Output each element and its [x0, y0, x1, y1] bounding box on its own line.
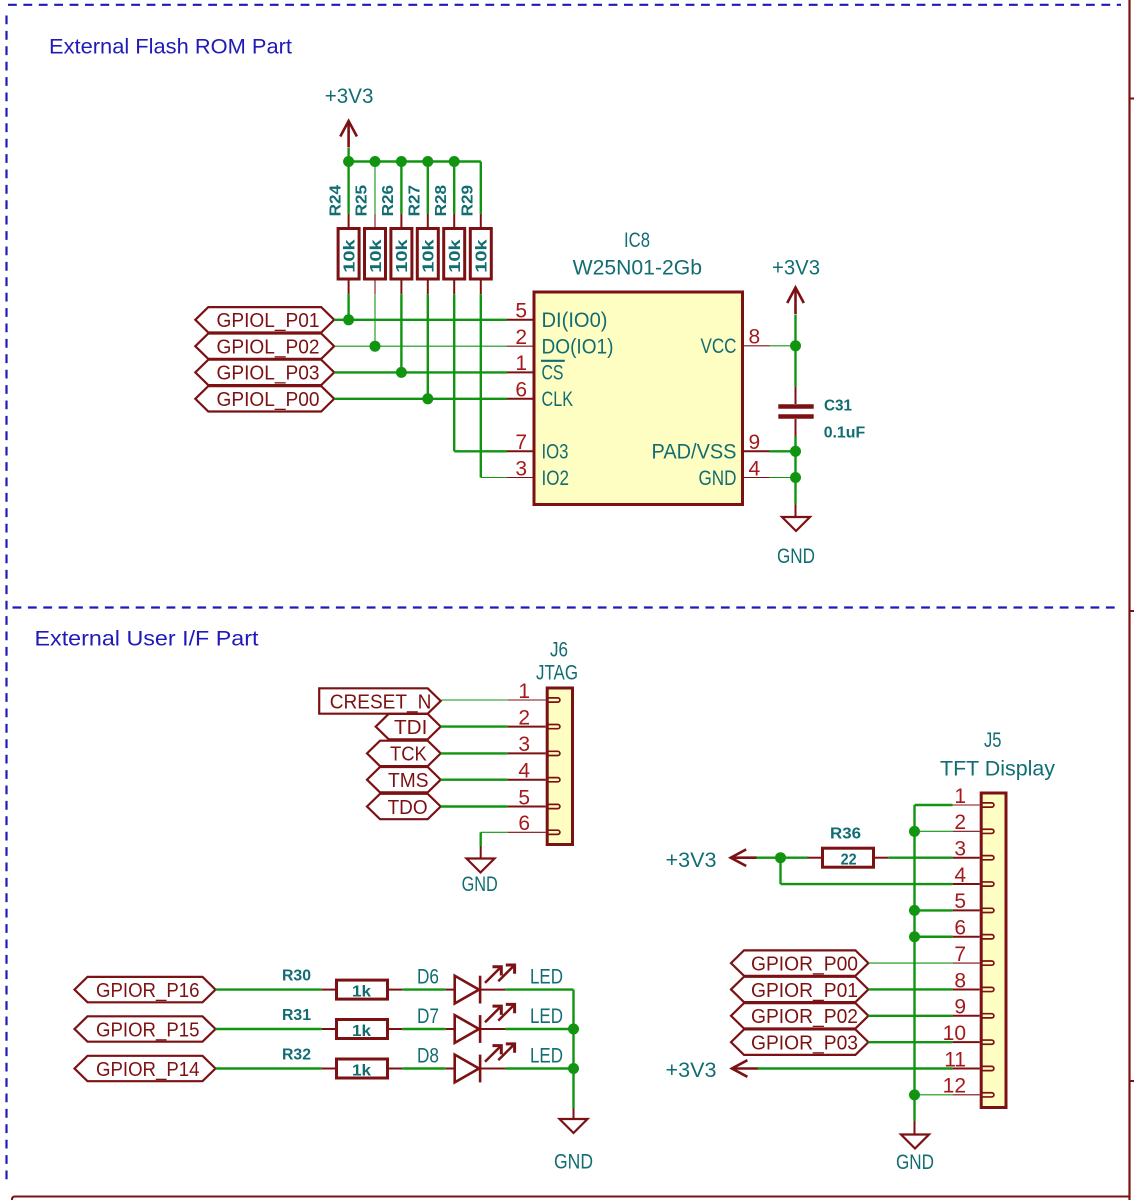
svg-text:5: 5	[518, 786, 530, 809]
wire TDO	[441, 805, 508, 807]
svg-text:GND: GND	[896, 1151, 934, 1174]
svg-text:1: 1	[515, 352, 527, 375]
wire GPIOR_P14 to R32	[216, 1067, 322, 1069]
hierarchical label GPIOR_P03	[731, 1029, 868, 1054]
J5 pin 2 stub	[953, 830, 980, 832]
svg-text:8: 8	[954, 969, 966, 992]
wire down to ground	[480, 832, 482, 846]
wire GPIOR_P01	[868, 988, 952, 990]
svg-text:10k: 10k	[368, 239, 385, 273]
wire +3V3 to J5 pin 11	[757, 1067, 952, 1069]
hierarchical label TDI	[376, 714, 441, 739]
ground stem	[795, 504, 797, 517]
+3V3 power	[732, 1060, 759, 1077]
wire R36 to J5 pin 3	[888, 857, 952, 859]
J5 pin 6 socket notch	[981, 935, 994, 939]
wire PAD/VSS	[770, 450, 796, 452]
svg-text:9: 9	[954, 996, 966, 1019]
wire to resistor	[480, 162, 482, 214]
svg-text:R24: R24	[327, 185, 344, 217]
J5 pin 5 stub	[953, 909, 980, 911]
resistor R31	[282, 1007, 402, 1040]
svg-text:TFT Display: TFT Display	[940, 758, 1056, 781]
J6 pin 6 socket notch	[547, 830, 560, 834]
svg-text:GPIOR_P03: GPIOR_P03	[751, 1031, 858, 1054]
J5 pin 7 socket notch	[981, 961, 994, 965]
pin 5 stub	[507, 319, 534, 321]
svg-text:R26: R26	[380, 185, 397, 217]
svg-text:9: 9	[749, 431, 761, 454]
svg-text:4: 4	[518, 760, 530, 783]
wire R25 to GPIOL_P02 net	[374, 294, 376, 346]
wire GPIOL_P00 to pin 6	[334, 398, 507, 400]
svg-text:R31: R31	[282, 1007, 311, 1024]
resistor R30	[282, 968, 402, 1001]
wire +3V3 stem	[347, 148, 349, 162]
resistor R27	[407, 185, 439, 294]
wire GPIOR_P16 to R30	[216, 988, 322, 990]
svg-text:10k: 10k	[341, 239, 358, 273]
svg-text:External Flash ROM Part: External Flash ROM Part	[49, 36, 292, 59]
resistor R24	[327, 185, 359, 294]
junction	[370, 156, 381, 167]
svg-text:7: 7	[954, 943, 966, 966]
pin 2 stub	[507, 345, 534, 347]
LED D7	[417, 1004, 563, 1043]
svg-text:R32: R32	[282, 1047, 311, 1064]
resistor R29	[460, 185, 492, 294]
svg-text:GND: GND	[462, 873, 498, 896]
junction	[422, 156, 433, 167]
wire LED ground bus	[572, 990, 574, 1108]
wire R27 to GPIOL_P00 net	[427, 294, 429, 399]
J5 pin 12 stub	[953, 1094, 980, 1096]
svg-text:GPIOR_P16: GPIOR_P16	[96, 979, 200, 1002]
svg-text:CRESET_N: CRESET_N	[330, 690, 432, 713]
pin name CS with overline	[541, 361, 565, 385]
wire GPIOR_P15 to R31	[216, 1028, 322, 1030]
J5 pin 4 socket notch	[981, 882, 994, 886]
LED D8	[417, 1044, 563, 1083]
wire GPIOL_P01 to pin 5	[334, 319, 507, 321]
svg-text:3: 3	[518, 733, 530, 756]
junction	[775, 852, 786, 863]
svg-text:LED: LED	[530, 966, 563, 989]
hierarchical label TMS	[367, 767, 441, 792]
J5 pin 3 stub	[953, 857, 980, 859]
svg-text:+3V3: +3V3	[666, 849, 717, 872]
svg-text:GND: GND	[554, 1151, 593, 1174]
wire GPIOR_P00	[868, 962, 952, 964]
J5 pin 9 socket notch	[981, 1014, 994, 1018]
svg-text:5: 5	[954, 890, 966, 913]
pin 1 stub	[507, 371, 534, 373]
section divider dashed line	[13, 606, 1122, 608]
wire J5 power/ground bus	[913, 805, 915, 1121]
wire R24 to GPIOL_P01 net	[347, 294, 349, 320]
wire R30 to D6	[402, 988, 445, 990]
ground stem	[573, 1108, 575, 1119]
svg-text:1k: 1k	[352, 1023, 371, 1040]
J5 pin 10 socket notch	[981, 1040, 994, 1044]
svg-text:TCK: TCK	[390, 743, 427, 766]
ground	[777, 517, 815, 568]
svg-text:4: 4	[749, 457, 761, 480]
J5 pin 12 socket notch	[981, 1093, 994, 1097]
svg-text:6: 6	[954, 917, 966, 940]
svg-text:8: 8	[749, 326, 761, 349]
junction	[909, 931, 920, 942]
hierarchical label GPIOL_P01	[195, 307, 334, 332]
+3V3 power	[731, 849, 758, 866]
IC U IC8 W25N01-2Gb body	[534, 292, 743, 505]
svg-text:4: 4	[954, 864, 966, 887]
J6 pin 4 stub	[508, 779, 546, 781]
svg-text:1: 1	[954, 785, 966, 808]
wire J6 pin 6 to ground	[481, 831, 508, 833]
svg-text:IC8: IC8	[624, 229, 650, 252]
connector J6 body	[547, 688, 572, 845]
J6 pin 5 socket notch	[547, 804, 560, 808]
wire IO2 row	[481, 477, 507, 479]
svg-text:GPIOR_P00: GPIOR_P00	[751, 952, 858, 975]
wire R26 to GPIOL_P03 net	[400, 294, 402, 372]
J5 pin 6 stub	[953, 936, 980, 938]
J5 pin 4 stub	[953, 883, 980, 885]
J6 pin 1 socket notch	[547, 698, 560, 702]
wire J5 pin 1	[915, 804, 953, 806]
wire J5 pin 12	[915, 1094, 953, 1096]
J5 pin 3 socket notch	[981, 856, 994, 860]
svg-text:GPIOR_P14: GPIOR_P14	[96, 1058, 200, 1081]
J6 pin 3 stub	[508, 752, 546, 754]
+3V3 power	[787, 288, 804, 315]
svg-text:2: 2	[954, 811, 966, 834]
svg-text:5: 5	[515, 300, 527, 323]
svg-text:TDO: TDO	[388, 796, 428, 819]
wire TDI	[441, 725, 508, 727]
svg-text:External User I/F Part: External User I/F Part	[35, 628, 259, 651]
J5 pin 11 stub	[953, 1068, 980, 1070]
svg-text:IO3: IO3	[542, 441, 569, 464]
svg-text:TMS: TMS	[388, 769, 429, 792]
J5 pin 11 socket notch	[981, 1066, 994, 1070]
wire D8 to ground bus	[505, 1067, 573, 1069]
capacitor C31	[778, 387, 813, 437]
wire D6 to ground bus	[505, 988, 573, 990]
svg-text:R30: R30	[282, 968, 311, 985]
svg-text:12: 12	[943, 1075, 966, 1098]
svg-text:1k: 1k	[352, 984, 371, 1001]
junction	[422, 393, 433, 404]
svg-text:3: 3	[515, 457, 527, 480]
ground J6	[462, 859, 498, 897]
svg-text:GND: GND	[777, 545, 815, 568]
junction	[370, 341, 381, 352]
J6 pin 5 stub	[508, 806, 546, 808]
svg-text:J6: J6	[550, 639, 568, 662]
hierarchical label GPIOL_P00	[195, 386, 334, 411]
section box dashed left edge	[5, 16, 7, 1183]
wire to ground	[794, 478, 796, 505]
wire R29 to IO2	[480, 294, 482, 477]
svg-text:CLK: CLK	[542, 388, 574, 411]
wire IO3 row	[454, 450, 507, 452]
J6 pin 2 stub	[508, 726, 546, 728]
hierarchical label CRESET_N	[319, 688, 441, 713]
wire TCK	[441, 752, 508, 754]
svg-text:R29: R29	[460, 185, 477, 217]
wire to resistor	[427, 162, 429, 214]
J6 pin 2 socket notch	[547, 725, 560, 729]
svg-text:J5: J5	[984, 729, 1002, 752]
wire J5 pin 5	[915, 909, 953, 911]
wire D7 to ground bus	[505, 1028, 573, 1030]
resistor R32	[282, 1047, 402, 1080]
J5 pin 1 socket notch	[981, 803, 994, 807]
junction	[343, 156, 354, 167]
wire VCC to C31	[794, 346, 796, 387]
wire CRESET_N	[441, 699, 508, 701]
svg-text:TDI: TDI	[394, 716, 427, 739]
svg-text:DI(IO0): DI(IO0)	[542, 309, 608, 332]
svg-text:6: 6	[518, 812, 530, 835]
svg-text:GPIOL_P03: GPIOL_P03	[217, 362, 320, 385]
svg-text:GND: GND	[699, 467, 737, 490]
svg-text:D6: D6	[417, 966, 439, 989]
svg-text:LED: LED	[530, 1005, 563, 1028]
wire GND pin	[770, 477, 796, 479]
wire TMS	[441, 779, 508, 781]
resistor R25	[354, 185, 386, 294]
svg-text:GPIOR_P01: GPIOR_P01	[751, 979, 858, 1002]
svg-text:10k: 10k	[447, 239, 464, 273]
sheet frame right border	[1130, 0, 1134, 1200]
hierarchical label GPIOL_P02	[195, 334, 334, 359]
wire GPIOR_P02	[868, 1015, 952, 1017]
ground stem	[480, 846, 482, 859]
connector J5 body	[981, 793, 1006, 1108]
svg-text:D8: D8	[417, 1044, 439, 1067]
pin 7 stub	[507, 450, 534, 452]
J5 pin 5 socket notch	[981, 908, 994, 912]
J5 pin 10 stub	[953, 1041, 980, 1043]
hierarchical label GPIOR_P02	[731, 1003, 868, 1028]
hierarchical label GPIOR_P00	[731, 950, 868, 975]
pin 6 stub	[507, 398, 534, 400]
J5 pin 9 stub	[953, 1015, 980, 1017]
svg-text:GPIOR_P02: GPIOR_P02	[751, 1005, 858, 1028]
svg-text:GPIOL_P02: GPIOL_P02	[217, 336, 320, 359]
svg-text:PAD/VSS: PAD/VSS	[652, 441, 737, 464]
section box dashed top edge	[8, 4, 1121, 6]
junction	[568, 1063, 579, 1074]
wire R28 to IO3	[453, 294, 455, 451]
ground J5	[896, 1135, 934, 1175]
J6 pin 6 stub	[508, 831, 546, 833]
LED D6	[417, 965, 563, 1004]
pin 3 stub	[507, 477, 534, 479]
wire junction to R36	[781, 857, 809, 859]
svg-text:DO(IO1): DO(IO1)	[542, 336, 614, 359]
resistor R36	[808, 826, 889, 869]
svg-text:LED: LED	[530, 1044, 563, 1067]
wire to resistor	[400, 162, 402, 214]
wire to resistor	[347, 162, 349, 214]
title block top edge	[12, 1197, 1130, 1200]
hierarchical label TDO	[367, 794, 441, 819]
pin 9 stub	[743, 450, 770, 452]
wire to resistor	[453, 162, 455, 214]
junction	[449, 156, 460, 167]
svg-text:D7: D7	[417, 1005, 439, 1028]
svg-text:R25: R25	[354, 185, 371, 217]
svg-text:R28: R28	[433, 185, 450, 217]
wire GPIOL_P03 to pin 1	[334, 371, 507, 373]
J6 pin 3 socket notch	[547, 751, 560, 755]
svg-text:GPIOL_P00: GPIOL_P00	[217, 388, 320, 411]
wire +3V3 to VCC	[794, 315, 796, 346]
+3V3 power	[340, 121, 357, 148]
wire R31 to D7	[402, 1028, 445, 1030]
svg-text:10k: 10k	[421, 239, 438, 273]
J6 pin 4 socket notch	[547, 778, 560, 782]
J5 pin 7 stub	[953, 962, 980, 964]
wire J5 pin 6	[915, 936, 953, 938]
ground LEDs	[554, 1119, 593, 1174]
svg-text:2: 2	[515, 326, 527, 349]
svg-text:GPIOL_P01: GPIOL_P01	[217, 309, 320, 332]
svg-text:CS: CS	[542, 362, 564, 385]
svg-text:C31: C31	[824, 398, 852, 415]
junction	[343, 314, 354, 325]
svg-text:1k: 1k	[352, 1063, 371, 1080]
hierarchical label GPIOR_P14	[75, 1056, 216, 1081]
svg-text:IO2: IO2	[542, 467, 570, 490]
J5 pin 8 socket notch	[981, 987, 994, 991]
resistor R28	[433, 185, 465, 294]
svg-text:+3V3: +3V3	[772, 256, 820, 279]
svg-text:22: 22	[841, 852, 857, 869]
resistor R26	[380, 185, 412, 294]
J6 pin 1 stub	[508, 699, 546, 701]
svg-text:W25N01-2Gb: W25N01-2Gb	[573, 256, 702, 279]
svg-text:0.1uF: 0.1uF	[824, 425, 866, 442]
pin 8 stub	[743, 345, 770, 347]
junction	[909, 826, 920, 837]
wire GPIOL_P02 to pin 2	[334, 345, 507, 347]
hierarchical label GPIOL_P03	[195, 360, 334, 385]
svg-text:7: 7	[515, 431, 527, 454]
junction	[568, 1024, 579, 1035]
svg-text:R36: R36	[830, 826, 861, 843]
junction	[396, 156, 407, 167]
junction	[790, 472, 801, 483]
svg-text:1: 1	[518, 680, 530, 703]
junction	[790, 446, 801, 457]
hierarchical label GPIOR_P16	[75, 977, 216, 1002]
wire R32 to D8	[402, 1067, 445, 1069]
hierarchical label TCK	[367, 741, 441, 766]
wire +3V3 to junction	[756, 857, 780, 859]
wire VCC	[770, 345, 796, 347]
svg-text:2: 2	[518, 706, 530, 729]
junction	[790, 340, 801, 351]
svg-text:+3V3: +3V3	[325, 85, 374, 108]
J5 pin 8 stub	[953, 988, 980, 990]
svg-text:VCC: VCC	[701, 335, 737, 358]
hierarchical label GPIOR_P01	[731, 977, 868, 1002]
svg-text:10k: 10k	[394, 239, 411, 273]
wire junction down	[779, 858, 781, 884]
junction	[909, 1089, 920, 1100]
svg-text:+3V3: +3V3	[666, 1059, 717, 1082]
wire GPIOR_P03	[868, 1041, 952, 1043]
J5 pin 1 stub	[953, 804, 980, 806]
wire C31 to PAD	[794, 437, 796, 452]
hierarchical label GPIOR_P15	[75, 1016, 216, 1041]
svg-text:R27: R27	[407, 185, 424, 217]
svg-text:GPIOR_P15: GPIOR_P15	[96, 1018, 200, 1041]
wire PAD to GND pin	[794, 451, 796, 477]
pin 4 stub	[743, 477, 770, 479]
svg-text:6: 6	[515, 379, 527, 402]
wire to resistor	[374, 162, 376, 214]
wire to J5 pin 4	[781, 883, 953, 885]
junction	[909, 905, 920, 916]
ground stem	[914, 1121, 916, 1135]
svg-text:10k: 10k	[474, 239, 491, 273]
wire J5 pin 2	[915, 830, 953, 832]
junction	[396, 367, 407, 378]
wire pull-up bus	[349, 160, 481, 162]
svg-text:JTAG: JTAG	[536, 662, 578, 685]
svg-text:3: 3	[954, 838, 966, 861]
J5 pin 2 socket notch	[981, 829, 994, 833]
